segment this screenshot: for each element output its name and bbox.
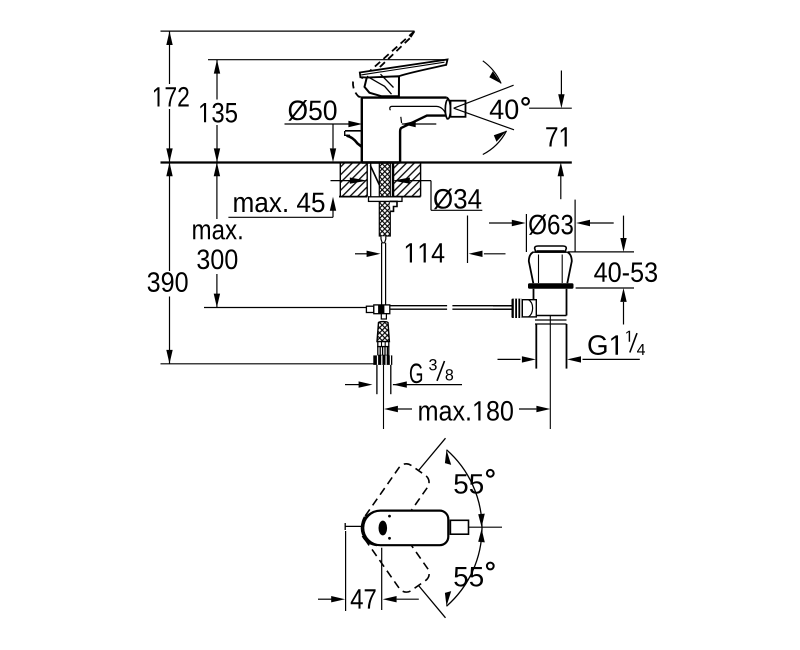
braided supply hose — [373, 322, 392, 429]
SHANK AND HOSE BELOW DECK — [369, 163, 403, 306]
deck hatch left block — [339, 162, 367, 196]
dimension D63 — [489, 200, 614, 252]
aerator top view — [450, 520, 502, 534]
waste knob and rod housing — [493, 299, 536, 318]
pop-up rod clamp — [366, 305, 389, 319]
dashed lever up 55 — [355, 460, 432, 550]
dimension D34 — [331, 178, 483, 211]
aerator on spout — [451, 101, 466, 117]
40 degree spray cone — [454, 61, 572, 155]
LEVER solid (side view) — [360, 60, 448, 97]
dimension D50 — [285, 100, 437, 162]
dashed lever down 55 — [355, 506, 432, 596]
dimension 172 — [154, 31, 189, 162]
spout end ellipse — [445, 100, 450, 119]
55 degree labels — [454, 470, 493, 587]
dimension 71 — [546, 71, 567, 200]
dimension 135 — [200, 60, 237, 163]
spray outlet (left of body) — [345, 131, 362, 147]
55 degree lines — [419, 438, 446, 618]
deck surface line — [161, 161, 572, 163]
dimension 47 — [318, 531, 419, 611]
dimension max.300 — [193, 162, 366, 307]
55 degree arcs — [445, 450, 485, 606]
extension line top (172 level) — [161, 30, 415, 32]
extension line 135 level — [208, 59, 448, 61]
dimension G1 1/4 — [498, 331, 646, 363]
deck hatch right block — [393, 162, 421, 196]
dimension 114 — [355, 216, 506, 264]
dimension 40-53 — [568, 216, 657, 325]
waste cap — [528, 246, 574, 429]
horizontal pop-up rod — [390, 306, 512, 310]
dimension G3/8 — [345, 359, 462, 388]
dimension max.180 — [384, 401, 550, 421]
dimension max.45 — [228, 193, 336, 218]
supply pipe stub top view — [345, 523, 363, 530]
LEVER dashed (raised position) — [353, 31, 414, 97]
handle top view solid — [362, 511, 449, 546]
FAUCET BODY (side view) — [362, 98, 451, 163]
dimension 390 — [148, 162, 374, 363]
